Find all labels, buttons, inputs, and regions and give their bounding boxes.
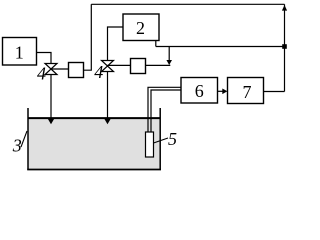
actuator box B2: [131, 59, 146, 74]
wire B1 to feedback riser: [84, 4, 92, 70]
feedback top line: [91, 3, 284, 5]
tank right wall: [159, 108, 161, 170]
svg-text:3: 3: [12, 136, 22, 156]
arrowhead box6 to box7: [222, 89, 227, 95]
wire valve V1 to actuator B1: [51, 68, 69, 70]
feedback right vertical: [284, 4, 286, 91]
wire box2 to valve V2: [108, 27, 124, 61]
water surface line: [28, 117, 160, 119]
branch wire to B2 line: [168, 47, 170, 61]
sensor 5: [146, 132, 154, 157]
box 6: [181, 78, 218, 104]
valve V2: [102, 61, 114, 72]
channel2 wire B2 to branch node: [146, 64, 171, 66]
wire box7 output: [264, 91, 285, 93]
wire box6 to box7: [218, 90, 224, 92]
tank left wall: [27, 108, 29, 170]
inlet arrowhead pipe 1: [48, 119, 55, 125]
svg-text:4: 4: [37, 64, 46, 84]
sensor tube outer line: [148, 87, 181, 132]
box 7: [228, 78, 264, 104]
feed line to box2: [156, 46, 285, 48]
svg-text:2: 2: [136, 18, 145, 38]
svg-text:1: 1: [15, 43, 24, 63]
box2 riser: [155, 41, 157, 47]
wire box1 to valve V1: [37, 53, 52, 64]
label 3 leader: [21, 131, 27, 147]
sensor tube inner line: [151, 90, 181, 132]
valve V1: [45, 64, 57, 75]
tank bottom: [27, 169, 161, 171]
up arrowhead top right: [282, 5, 287, 11]
wire valve V2 to actuator B2: [108, 64, 131, 66]
box 2: [123, 14, 159, 41]
pipe valve V1 to tank: [50, 75, 52, 119]
svg-text:7: 7: [243, 82, 252, 102]
inlet arrowhead pipe 2: [104, 119, 111, 125]
pipe valve V2 to tank: [107, 72, 109, 119]
box 1: [3, 38, 37, 66]
junction node: [282, 44, 287, 49]
svg-text:5: 5: [168, 129, 177, 149]
tank 3 water fill: [29, 118, 161, 169]
actuator box B1: [69, 63, 84, 78]
label 5 leader: [154, 138, 169, 143]
svg-text:4: 4: [94, 62, 103, 82]
down arrowhead branch: [166, 60, 172, 65]
svg-text:6: 6: [195, 81, 204, 101]
